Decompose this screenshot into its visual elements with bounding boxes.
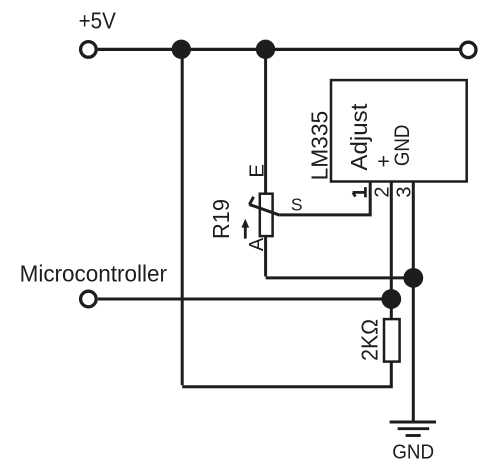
wire pot A lead down (264, 236, 267, 276)
svg-text:S: S (291, 194, 303, 214)
potentiometer R19 wiper diagonal (249, 204, 280, 215)
terminal circle microcontroller (81, 291, 97, 307)
junction node pin3/pot wire (403, 268, 423, 288)
svg-text:2: 2 (371, 186, 393, 197)
potentiometer R19 wiper tick (249, 197, 253, 205)
svg-text:GND: GND (392, 442, 434, 464)
wire pin2 output column (390, 182, 393, 320)
svg-text:GND: GND (391, 125, 414, 167)
svg-text:2KΩ: 2KΩ (356, 319, 382, 361)
junction node A (top left) (172, 40, 191, 59)
wire pin1 to wiper S (280, 182, 370, 215)
svg-text:+: + (377, 149, 390, 173)
pin number 1 (353, 187, 366, 197)
junction node B (top middle) (256, 40, 275, 59)
svg-text:E: E (245, 164, 268, 178)
wire bottom horizontal run to 2K resistor (182, 362, 391, 387)
wire microcontroller line (98, 298, 391, 301)
potentiometer R19 body (260, 194, 273, 236)
arrow pot adjust direction (244, 227, 247, 239)
wire pot E lead from node B (264, 49, 267, 194)
svg-text:3: 3 (393, 187, 415, 198)
wire pot A to pin3 node (266, 276, 414, 279)
svg-text:Microcontroller: Microcontroller (20, 261, 168, 287)
IC U1 LM335 box (331, 80, 467, 181)
wire top +5V rail (98, 48, 460, 51)
junction node pin2/microcontroller (381, 289, 401, 309)
wire left vertical drop from node A (181, 49, 184, 385)
wire pin3 GND column (412, 182, 415, 422)
svg-text:LM335: LM335 (306, 111, 332, 181)
svg-text:Adjust: Adjust (346, 103, 372, 170)
svg-text:+5V: +5V (79, 8, 116, 34)
svg-text:R19: R19 (208, 199, 234, 239)
resistor 2K body (384, 319, 400, 362)
svg-text:A: A (246, 237, 268, 251)
terminal circle top right (461, 42, 476, 57)
ground symbol (390, 422, 436, 436)
terminal circle +5V (81, 42, 97, 58)
